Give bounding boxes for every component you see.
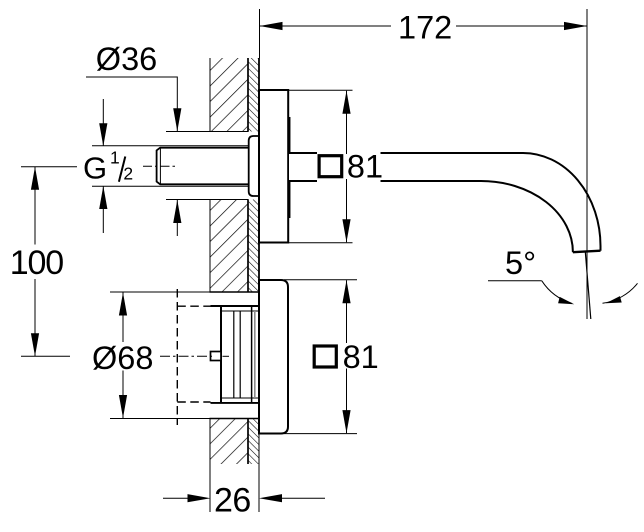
svg-text:Ø36: Ø36: [96, 41, 157, 77]
svg-text:100: 100: [10, 244, 63, 282]
svg-text:172: 172: [398, 9, 452, 45]
svg-text:5°: 5°: [505, 245, 536, 281]
svg-text:Ø68: Ø68: [92, 340, 153, 376]
svg-text:81: 81: [343, 339, 379, 375]
svg-text:2: 2: [123, 164, 133, 184]
svg-text:1: 1: [110, 148, 120, 168]
svg-text:G: G: [83, 151, 107, 186]
svg-text:81: 81: [347, 149, 383, 185]
svg-text:26: 26: [214, 481, 251, 519]
